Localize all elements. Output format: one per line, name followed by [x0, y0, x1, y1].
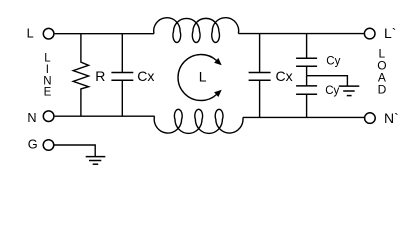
terminal N: [43, 111, 54, 122]
svg-text:L: L: [27, 26, 34, 40]
svg-text:Cx: Cx: [276, 68, 293, 84]
capacitor Cx1: [111, 34, 133, 117]
choke arrow head bottom: [214, 90, 222, 97]
svg-text:E: E: [44, 87, 52, 99]
capacitor Cx2: [249, 34, 271, 118]
label LINE (vertical): [43, 52, 51, 98]
inductor L bottom winding: [154, 109, 243, 133]
inductor L top winding: [154, 18, 239, 43]
terminal G: [43, 140, 54, 151]
terminal L: [43, 28, 54, 39]
svg-text:D: D: [378, 83, 387, 97]
wire top-right (choke to L'): [239, 33, 365, 35]
terminal L': [364, 28, 375, 39]
capacitor Cy1 (top): [296, 34, 317, 76]
wire bottom-left (N to choke): [55, 115, 155, 117]
svg-text:G: G: [28, 138, 38, 152]
wire G to ground: [55, 145, 96, 156]
label LOAD (vertical): [377, 46, 386, 96]
svg-text:Cy: Cy: [326, 56, 340, 68]
svg-text:N`: N`: [384, 110, 399, 126]
svg-text:N: N: [27, 111, 36, 125]
svg-text:L: L: [199, 68, 207, 84]
wire Cy midpoint to ground: [307, 76, 348, 86]
wire top-left (L to choke): [55, 33, 154, 35]
capacitor Cy2 (bottom): [296, 76, 317, 118]
svg-text:N: N: [43, 75, 51, 87]
svg-text:L: L: [44, 52, 51, 64]
svg-text:Cy: Cy: [325, 85, 339, 97]
resistor R: [73, 34, 88, 117]
wire bottom-right (choke to N'): [243, 116, 365, 118]
svg-text:Cx: Cx: [137, 68, 154, 84]
choke circulating-flux arrow (arc): [178, 55, 216, 101]
ground (earth) symbol right: [339, 86, 360, 96]
terminal N': [365, 113, 376, 124]
svg-text:L`: L`: [384, 25, 396, 41]
svg-text:R: R: [95, 68, 105, 84]
ground (earth) symbol left: [86, 157, 106, 165]
svg-text:I: I: [46, 64, 49, 76]
choke arrow head top: [214, 58, 222, 65]
